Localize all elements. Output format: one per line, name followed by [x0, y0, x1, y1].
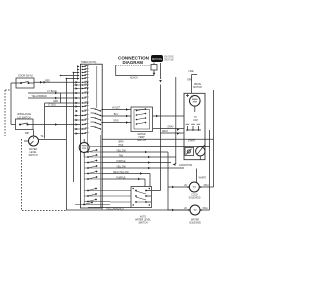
- svg-text:LT. BLU: LT. BLU: [48, 105, 56, 107]
- svg-text:START: START: [188, 140, 196, 143]
- svg-text:TAN: TAN: [119, 154, 124, 157]
- svg-text:PURPLE: PURPLE: [116, 177, 126, 179]
- svg-text:LT. BLUE: LT. BLUE: [47, 91, 57, 93]
- svg-text:TV: TV: [193, 208, 197, 212]
- svg-text:CIRCUIT LINE: CIRCUIT LINE: [164, 60, 174, 62]
- svg-text:LINE: LINE: [188, 71, 194, 73]
- svg-text:GRN: GRN: [187, 79, 192, 81]
- svg-text:TV: TV: [194, 117, 197, 119]
- svg-text:15A1: 15A1: [203, 184, 209, 187]
- svg-text:LOW VOLTAGE: LOW VOLTAGE: [164, 56, 174, 59]
- svg-text:GRN: GRN: [53, 101, 58, 103]
- svg-text:RED: RED: [45, 81, 50, 83]
- svg-text:WHITE: WHITE: [199, 178, 207, 180]
- svg-text:WATER LEVEL: WATER LEVEL: [135, 219, 152, 222]
- svg-text:SOLENOID: SOLENOID: [189, 197, 201, 199]
- svg-text:SOLENOID: SOLENOID: [189, 222, 201, 224]
- svg-text:UNBALANCE: UNBALANCE: [17, 113, 32, 116]
- svg-text:ORG: ORG: [113, 120, 118, 122]
- svg-text:YELLOW: YELLOW: [116, 150, 126, 152]
- svg-text:DIAGRAM: DIAGRAM: [123, 60, 144, 65]
- svg-text:WATER: WATER: [191, 218, 199, 221]
- svg-text:SWITCH: SWITCH: [137, 140, 146, 142]
- svg-text:PNK: PNK: [119, 145, 124, 147]
- svg-text:SWITCH: SWITCH: [138, 223, 147, 225]
- svg-text:20: 20: [184, 208, 187, 210]
- svg-text:TIL: TIL: [40, 136, 44, 138]
- svg-text:SWITCH: SWITCH: [28, 155, 37, 157]
- svg-text:BLACK: BLACK: [130, 76, 138, 79]
- svg-text:TIMER (60 HZ): TIMER (60 HZ): [81, 62, 97, 64]
- svg-text:GRAY: GRAY: [167, 126, 174, 129]
- svg-text:COLD: COLD: [191, 194, 198, 196]
- svg-text:AUTO: AUTO: [140, 216, 147, 219]
- svg-text:CAPACITOR: CAPACITOR: [179, 164, 193, 167]
- svg-text:DOOR SW A2: DOOR SW A2: [18, 75, 33, 78]
- svg-text:DRIVE: DRIVE: [194, 84, 201, 86]
- svg-text:GRAY: GRAY: [162, 130, 169, 133]
- svg-text:YELLOW/BLACK: YELLOW/BLACK: [106, 208, 124, 211]
- svg-text:YELLOW: YELLOW: [116, 166, 126, 168]
- svg-text:MED-YELLOW: MED-YELLOW: [113, 172, 129, 174]
- svg-text:LEVEL: LEVEL: [29, 152, 37, 154]
- svg-text:PURPLE: PURPLE: [116, 161, 126, 163]
- svg-text:M: M: [191, 96, 193, 98]
- svg-text:VIOLET: VIOLET: [112, 107, 121, 109]
- svg-text:TEMP: TEMP: [138, 137, 145, 139]
- svg-text:15A1: 15A1: [202, 207, 208, 210]
- svg-text:MOTOR: MOTOR: [193, 87, 202, 89]
- svg-text:BRN: BRN: [119, 142, 124, 144]
- svg-text:WATER: WATER: [137, 133, 145, 136]
- svg-text:20: 20: [184, 185, 187, 187]
- svg-text:BLU: BLU: [114, 114, 119, 116]
- svg-text:MAYTAG: MAYTAG: [152, 57, 163, 61]
- svg-text:TV: TV: [193, 185, 197, 189]
- svg-text:WATER: WATER: [29, 148, 37, 151]
- svg-text:LID SWITCH: LID SWITCH: [17, 117, 31, 119]
- svg-text:CAP: CAP: [193, 119, 198, 122]
- svg-text:YELLOW/RED: YELLOW/RED: [31, 96, 46, 98]
- svg-text:IMP: IMP: [25, 133, 30, 135]
